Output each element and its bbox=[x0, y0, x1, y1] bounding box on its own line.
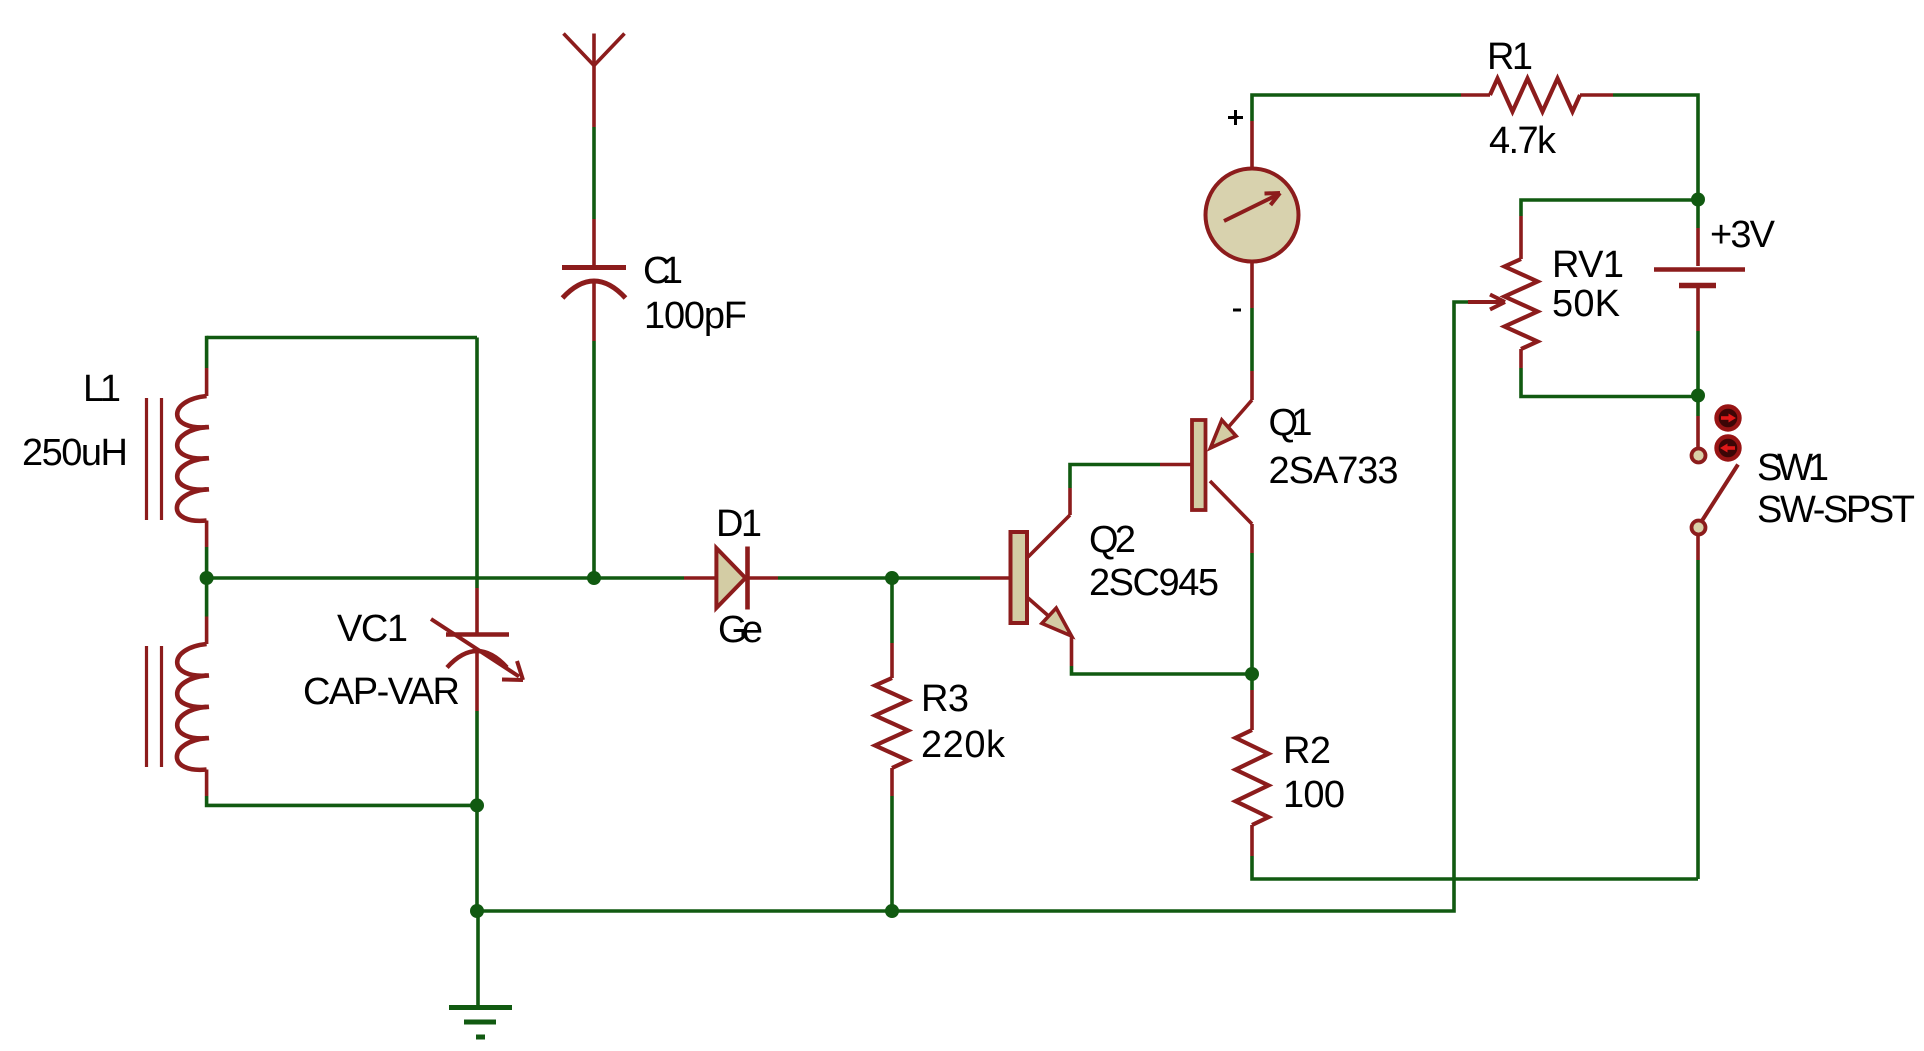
L1 core bars top bbox=[147, 398, 162, 520]
wire Q1 emitter to meter bbox=[1250, 262, 1254, 400]
battery BT1 +3V bbox=[1654, 270, 1745, 286]
svg-text:2SC945: 2SC945 bbox=[1089, 562, 1219, 604]
resistor R2 bbox=[1236, 730, 1269, 825]
junction node dots bbox=[200, 193, 1705, 919]
wire R2 top lead bbox=[1250, 674, 1254, 730]
svg-text:SW-SPST: SW-SPST bbox=[1757, 489, 1915, 531]
svg-text:C1: C1 bbox=[643, 250, 683, 292]
wire R1 right to battery node bbox=[1580, 95, 1698, 200]
svg-text:250uH: 250uH bbox=[22, 432, 128, 474]
wire switch bottom lead bbox=[1696, 535, 1700, 880]
wire battery top lead bbox=[1696, 200, 1700, 267]
wire battery bottom lead bbox=[1696, 288, 1700, 396]
svg-text:50K: 50K bbox=[1552, 283, 1620, 325]
svg-text:RV1: RV1 bbox=[1552, 244, 1624, 286]
svg-text:Ge: Ge bbox=[718, 609, 763, 651]
resistor R3 bbox=[875, 678, 908, 768]
L1 core bars bottom bbox=[147, 646, 162, 767]
wire C1 to main node bbox=[592, 282, 596, 578]
wire Q2 collector to Q1 base bbox=[1070, 465, 1191, 516]
resistor R1 bbox=[1490, 79, 1580, 112]
svg-text:R3: R3 bbox=[921, 678, 969, 720]
wire RV1 top bbox=[1521, 200, 1698, 259]
switch SW1 toggle button down bbox=[1717, 437, 1740, 460]
transistor Q1 bbox=[1192, 400, 1252, 524]
svg-text:L1: L1 bbox=[83, 368, 121, 410]
wire D1 to R3 node bbox=[749, 576, 1010, 580]
meter plus label bbox=[1228, 110, 1243, 125]
svg-text:220k: 220k bbox=[921, 724, 1006, 766]
meter minus label bbox=[1233, 309, 1241, 312]
svg-text:Q2: Q2 bbox=[1089, 519, 1136, 561]
svg-text:100pF: 100pF bbox=[644, 295, 747, 337]
inductor L1 top winding bbox=[177, 396, 209, 521]
variable capacitor VC1 bbox=[431, 619, 523, 680]
wire L1 top lead bbox=[205, 336, 209, 396]
wire VC1 branch vertical bbox=[475, 338, 479, 806]
svg-text:+3V: +3V bbox=[1710, 214, 1776, 256]
RV1 wiper arrow bbox=[1468, 295, 1505, 310]
svg-text:R2: R2 bbox=[1283, 730, 1331, 772]
wire R3 bottom lead bbox=[890, 768, 894, 911]
svg-text:D1: D1 bbox=[716, 503, 762, 545]
transistor Q2 bbox=[1011, 515, 1072, 636]
switch SW1 toggle button up bbox=[1717, 407, 1740, 430]
potentiometer RV1 bbox=[1505, 259, 1538, 349]
meter M1 bbox=[1206, 169, 1299, 262]
svg-text:R1: R1 bbox=[1487, 36, 1533, 78]
wire main horizontal node bbox=[207, 576, 716, 580]
wire meter top bbox=[1252, 95, 1490, 168]
svg-text:CAP-VAR: CAP-VAR bbox=[303, 671, 460, 713]
ground bbox=[449, 911, 512, 1037]
wire antenna to C1 bbox=[592, 127, 596, 265]
svg-text:2SA733: 2SA733 bbox=[1269, 450, 1399, 492]
diode D1 bbox=[716, 547, 747, 610]
wire bottom rail bbox=[477, 302, 1468, 911]
wire Q2 emitter to node bbox=[1072, 636, 1253, 674]
wire L1 center tap bbox=[205, 521, 209, 645]
capacitor C1 bbox=[562, 268, 626, 299]
wire R2 bottom lead bbox=[1252, 825, 1698, 879]
inductor L1 bottom winding bbox=[177, 644, 209, 770]
svg-text:4.7k: 4.7k bbox=[1489, 120, 1557, 162]
svg-text:100: 100 bbox=[1283, 774, 1345, 816]
switch SW1 bbox=[1692, 449, 1739, 535]
wire VC1 to ground rail bbox=[475, 805, 479, 911]
wire L1 bottom lead bbox=[207, 770, 477, 806]
wire L1 top horizontal bbox=[207, 336, 477, 340]
wire R3 top lead bbox=[890, 578, 894, 678]
svg-text:SW1: SW1 bbox=[1757, 447, 1829, 489]
wire Q1 collector down bbox=[1250, 524, 1254, 674]
wire RV1 bottom bbox=[1521, 349, 1698, 397]
antenna bbox=[564, 34, 625, 128]
wire switch top lead bbox=[1696, 397, 1700, 448]
svg-text:VC1: VC1 bbox=[337, 608, 408, 650]
svg-text:Q1: Q1 bbox=[1269, 402, 1313, 444]
